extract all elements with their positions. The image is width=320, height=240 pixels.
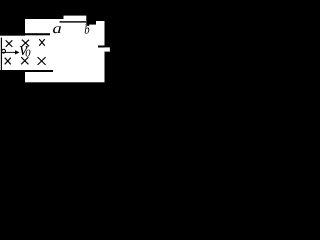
rail line under rod bbox=[60, 21, 87, 22]
velocity arrow shaft bbox=[2, 51, 16, 54]
x row1 c1 bbox=[6, 40, 13, 47]
particle circle bbox=[2, 49, 6, 53]
x row2 c2 bbox=[21, 57, 28, 64]
background bbox=[0, 0, 122, 115]
velocity arrow head bbox=[15, 50, 20, 54]
rod ab (white bar) bbox=[64, 16, 87, 22]
x row1 c3 bbox=[39, 39, 45, 46]
x row2 c1 bbox=[5, 58, 11, 65]
label 0 subscript of v0 bbox=[26, 50, 31, 57]
tick mark bbox=[87, 24, 89, 26]
label a bbox=[53, 26, 61, 33]
x row1 c2 bbox=[22, 40, 29, 47]
label b bbox=[85, 25, 90, 34]
black block far right top bbox=[96, 19, 105, 21]
black block right of rod bbox=[86, 19, 96, 25]
white notch right bbox=[104, 47, 110, 51]
field region white box bbox=[0, 36, 27, 70]
gap strip C bbox=[98, 46, 105, 48]
label v of v0 bbox=[20, 46, 28, 55]
white panel main bbox=[25, 19, 105, 82]
field left border line bbox=[1, 38, 2, 70]
gap strip B bbox=[25, 70, 53, 72]
gap strip A bbox=[25, 33, 50, 35]
x row2 c3 bbox=[38, 57, 46, 65]
